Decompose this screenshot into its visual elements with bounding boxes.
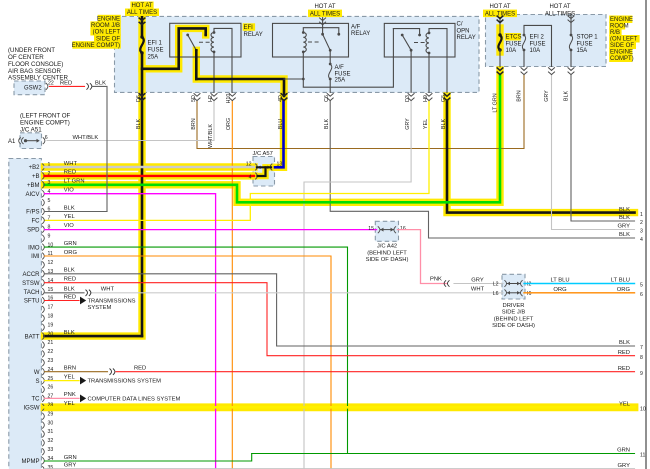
fuse EFI2 10A bbox=[522, 35, 525, 50]
C/OPN relay box bbox=[384, 23, 455, 57]
svg-text:32: 32 bbox=[48, 438, 54, 444]
svg-text:BLK: BLK bbox=[64, 287, 75, 293]
highlight G5 BLK wire to edge row1 bbox=[447, 96, 635, 213]
svg-text:6: 6 bbox=[640, 292, 643, 298]
wire ECM pin34 GRN bbox=[45, 454, 252, 462]
svg-text:J/C A57: J/C A57 bbox=[253, 151, 273, 157]
wire GSW2 BLK to ECM F/PS bbox=[93, 86, 108, 211]
svg-text:BATT: BATT bbox=[25, 334, 40, 340]
svg-text:25A: 25A bbox=[335, 78, 346, 84]
pin27 arrow computer data lines system bbox=[80, 395, 86, 403]
EFI relay coil bottom wire to H2 bbox=[213, 52, 215, 93]
svg-text:15: 15 bbox=[368, 226, 374, 232]
svg-text:A1: A1 bbox=[8, 139, 16, 145]
svg-text:I2: I2 bbox=[527, 282, 531, 288]
svg-text:26: 26 bbox=[48, 385, 54, 391]
R/B bottom pin chevrons bbox=[497, 67, 504, 70]
ECM connector box bbox=[9, 159, 42, 469]
J/C A51 box bbox=[20, 133, 42, 149]
svg-text:J/C A51: J/C A51 bbox=[20, 126, 42, 133]
svg-text:AICV: AICV bbox=[25, 192, 39, 198]
page border right bbox=[645, 0, 647, 469]
svg-text:RED: RED bbox=[134, 366, 146, 372]
svg-text:YEL: YEL bbox=[423, 119, 429, 129]
wire C6 BLK to edge row4 bbox=[330, 101, 634, 238]
A/F fuse wire bbox=[329, 50, 331, 64]
svg-text:15: 15 bbox=[48, 287, 54, 293]
svg-text:15A: 15A bbox=[577, 48, 588, 54]
svg-text:D3: D3 bbox=[405, 95, 411, 102]
wire H9 YEL bbox=[45, 101, 430, 221]
pin15 inline connector BLK-WHT bbox=[86, 290, 91, 296]
svg-text:J/C A42: J/C A42 bbox=[377, 244, 397, 250]
svg-text:WHT: WHT bbox=[471, 287, 485, 293]
A/F relay box bbox=[273, 23, 349, 57]
svg-text:COMPUTER DATA LINES SYSTEM: COMPUTER DATA LINES SYSTEM bbox=[88, 396, 181, 402]
svg-text:BRN: BRN bbox=[517, 90, 523, 101]
EFI relay feed riser bbox=[142, 28, 206, 68]
J/B top pin chevrons bbox=[139, 18, 146, 21]
svg-text:YEL: YEL bbox=[64, 401, 76, 407]
svg-text:WHT/BLK: WHT/BLK bbox=[208, 124, 214, 148]
svg-text:FUSE: FUSE bbox=[335, 71, 351, 77]
wire GRY to driver J/B L2 bbox=[454, 283, 503, 285]
wire ECM pin11 ORG bbox=[45, 256, 332, 469]
wire ECM pin2 RED bbox=[45, 175, 255, 177]
driver J/B pins L2 I2 L6 I6 bbox=[504, 280, 506, 287]
svg-text:3: 3 bbox=[640, 229, 643, 235]
wire ECM pin14 RED to edge row8 bbox=[45, 283, 635, 356]
wire GRY to edge row3 bbox=[552, 75, 635, 230]
svg-text:10: 10 bbox=[640, 407, 646, 413]
highlight ECM pin2 RED to J/C A57 pin4 bbox=[45, 172, 255, 179]
pin16 arrow transmissions system bbox=[80, 297, 86, 305]
svg-text:ALL TIMES: ALL TIMES bbox=[545, 11, 575, 17]
wire ECM pin35 GRY bbox=[45, 468, 635, 469]
EFI relay box U1 bbox=[170, 23, 241, 57]
wire ECM pin10 GRN bbox=[45, 247, 348, 453]
wire D6 BLK highlighted trunk bbox=[141, 14, 144, 38]
svg-text:RELAY: RELAY bbox=[351, 31, 370, 37]
highlight IGSW YEL row to edge row10 bbox=[45, 403, 635, 411]
svg-text:STOP 1: STOP 1 bbox=[577, 35, 599, 41]
svg-text:A/F: A/F bbox=[351, 25, 361, 31]
engine room J/B box bbox=[115, 16, 480, 92]
svg-text:FUSE: FUSE bbox=[530, 41, 546, 47]
wire LT BLU I2 to edge row5 bbox=[524, 283, 635, 285]
EFI relay output riser to rail bbox=[195, 50, 198, 79]
svg-text:HOT AT: HOT AT bbox=[131, 3, 152, 9]
svg-text:3: 3 bbox=[48, 180, 51, 186]
svg-text:A/F: A/F bbox=[335, 65, 345, 71]
svg-text:1: 1 bbox=[640, 212, 643, 218]
fuse ETCS 10A bbox=[498, 35, 501, 50]
svg-text:(BEHIND LEFT: (BEHIND LEFT bbox=[494, 316, 534, 322]
svg-text:TACH: TACH bbox=[24, 290, 40, 296]
A/F relay dashed link bbox=[308, 41, 319, 43]
svg-text:FUSE: FUSE bbox=[148, 48, 164, 54]
svg-text:10A: 10A bbox=[506, 48, 517, 54]
svg-text:BRN: BRN bbox=[64, 366, 76, 372]
svg-text:C/: C/ bbox=[457, 22, 463, 28]
svg-text:ORG: ORG bbox=[553, 287, 567, 293]
svg-text:WHT: WHT bbox=[64, 161, 78, 167]
A/F relay switch bbox=[323, 34, 331, 50]
svg-text:RED: RED bbox=[64, 294, 76, 300]
C/OPN relay switch bbox=[402, 35, 411, 50]
driver side J/B box bbox=[502, 274, 525, 299]
svg-text:FUSE: FUSE bbox=[577, 41, 593, 47]
wire 4D BLU highlighted bbox=[275, 101, 284, 168]
wire ORG I6 to edge row6 bbox=[524, 292, 635, 294]
svg-text:FUSE: FUSE bbox=[506, 41, 522, 47]
svg-text:BLK: BLK bbox=[441, 119, 447, 130]
svg-text:RED: RED bbox=[618, 366, 630, 372]
engine room J/B label bbox=[98, 15, 121, 22]
C/OPN relay blade output to D3 bbox=[410, 50, 412, 92]
svg-text:LT GRN: LT GRN bbox=[493, 93, 499, 112]
svg-text:31: 31 bbox=[48, 429, 54, 435]
svg-text:HOT AT: HOT AT bbox=[314, 4, 335, 10]
wire D3 GRY bbox=[304, 101, 411, 469]
svg-text:ORG: ORG bbox=[64, 250, 78, 256]
svg-text:30: 30 bbox=[48, 420, 54, 426]
GSW2 pin bracket bbox=[46, 83, 48, 90]
svg-text:BLK: BLK bbox=[136, 119, 142, 130]
svg-text:TRANSMISSIONS SYSTEM: TRANSMISSIONS SYSTEM bbox=[88, 379, 162, 385]
svg-text:OPN: OPN bbox=[457, 28, 470, 34]
svg-text:SYSTEM: SYSTEM bbox=[88, 305, 112, 311]
svg-text:RED: RED bbox=[60, 80, 72, 86]
svg-text:TRANSMISSIONS: TRANSMISSIONS bbox=[88, 299, 136, 305]
engine room R/B label bbox=[609, 16, 632, 24]
svg-text:SFTU: SFTU bbox=[24, 299, 40, 305]
svg-text:+BM: +BM bbox=[27, 183, 40, 189]
svg-text:FC: FC bbox=[32, 219, 41, 225]
wire STOP1 BLK to edge row2 bbox=[571, 75, 635, 221]
svg-text:SIDE J/B: SIDE J/B bbox=[502, 310, 526, 316]
wire ECM pin13 BLK to edge row7 bbox=[45, 274, 635, 346]
svg-text:DRIVER: DRIVER bbox=[503, 303, 525, 309]
inline connector RED-BLK bbox=[87, 83, 92, 89]
A/F relay coil bbox=[303, 33, 306, 52]
EFI relay switch bbox=[188, 35, 197, 50]
svg-text:L2: L2 bbox=[493, 282, 499, 288]
svg-text:H2: H2 bbox=[208, 95, 214, 102]
svg-text:ORG: ORG bbox=[617, 287, 631, 293]
svg-text:23: 23 bbox=[48, 358, 54, 364]
ETCS fuse label bbox=[505, 33, 521, 41]
highlight BLU wire A57 pin13 to 4D bbox=[275, 96, 284, 167]
svg-text:BLK: BLK bbox=[324, 119, 330, 130]
svg-text:SIDE OF DASH): SIDE OF DASH) bbox=[492, 323, 535, 329]
svg-text:BLK: BLK bbox=[619, 340, 630, 346]
svg-text:7: 7 bbox=[640, 345, 643, 351]
A1 connector pin bbox=[19, 137, 24, 144]
wire ECM pin24 RED to edge row9 bbox=[116, 371, 635, 373]
fuse EFI1 symbol bbox=[140, 37, 143, 53]
svg-text:BRN: BRN bbox=[191, 118, 197, 129]
svg-text:L6: L6 bbox=[493, 291, 499, 297]
svg-text:COMPT): COMPT) bbox=[610, 56, 634, 62]
fuse A/F 25A bbox=[329, 64, 332, 79]
svg-text:5D: 5D bbox=[191, 95, 197, 102]
svg-text:BLK: BLK bbox=[64, 330, 75, 336]
svg-text:EFI 1: EFI 1 bbox=[148, 41, 163, 47]
J/B bottom pin chevrons bbox=[194, 93, 201, 96]
svg-text:9: 9 bbox=[48, 233, 51, 239]
svg-text:SPD: SPD bbox=[27, 228, 40, 234]
highlight BATT BLK trunk ECM pin20 to D6 bbox=[45, 17, 143, 336]
wire 5D BRN bbox=[197, 75, 524, 149]
svg-text:C6: C6 bbox=[324, 95, 330, 102]
svg-text:7: 7 bbox=[48, 216, 51, 222]
svg-text:BLK: BLK bbox=[95, 80, 106, 86]
wire ECM pin25 YEL to transmissions bbox=[45, 380, 80, 382]
J/C A42 pins and internal path bbox=[378, 226, 380, 233]
engine room R/B box bbox=[486, 15, 607, 67]
svg-text:10A: 10A bbox=[530, 48, 541, 54]
C/OPN relay coil bbox=[426, 33, 429, 53]
svg-text:21: 21 bbox=[48, 340, 54, 346]
svg-text:6: 6 bbox=[45, 135, 48, 141]
svg-text:GRN: GRN bbox=[64, 455, 77, 461]
svg-text:IGSW: IGSW bbox=[24, 406, 40, 412]
svg-text:29: 29 bbox=[48, 411, 54, 417]
wire ECM pin24 BRN bbox=[45, 371, 108, 373]
rail EFI relay to 4D bbox=[196, 79, 284, 96]
svg-text:LT GRN: LT GRN bbox=[64, 179, 85, 185]
svg-text:GRY: GRY bbox=[544, 90, 550, 102]
svg-text:LT BLU: LT BLU bbox=[550, 278, 569, 284]
fuse ETCS 10A feed bbox=[499, 14, 501, 36]
svg-text:W: W bbox=[34, 370, 40, 376]
fuse EFI2 10A rail bbox=[524, 25, 552, 66]
svg-text:H9: H9 bbox=[423, 95, 429, 102]
svg-text:12: 12 bbox=[48, 260, 54, 266]
svg-text:BLK: BLK bbox=[64, 268, 75, 274]
svg-text:ENGINE COMPT): ENGINE COMPT) bbox=[72, 43, 120, 49]
svg-text:STSW: STSW bbox=[22, 281, 40, 287]
svg-text:5: 5 bbox=[640, 283, 643, 289]
svg-text:+B: +B bbox=[32, 174, 40, 180]
svg-text:ALL TIMES: ALL TIMES bbox=[310, 11, 340, 17]
svg-text:GRY: GRY bbox=[618, 463, 631, 469]
svg-text:MPMP: MPMP bbox=[22, 459, 40, 465]
svg-text:BLK: BLK bbox=[619, 207, 630, 213]
fuse STOP1 15A bbox=[569, 35, 572, 50]
svg-text:BLK: BLK bbox=[619, 232, 630, 238]
wire ECM pin28 YEL row core bbox=[45, 406, 635, 409]
wire BATT row core bbox=[45, 335, 143, 338]
svg-text:ACCR: ACCR bbox=[22, 272, 40, 278]
svg-text:RELAY: RELAY bbox=[457, 35, 476, 41]
svg-text:18: 18 bbox=[48, 314, 54, 320]
J/C A42 box bbox=[375, 221, 398, 241]
svg-text:RED: RED bbox=[64, 170, 76, 176]
EFI relay label bbox=[243, 23, 255, 31]
svg-text:GRY: GRY bbox=[405, 118, 411, 130]
svg-text:EFI: EFI bbox=[244, 25, 254, 31]
wire ECM pin1 WHT bbox=[45, 166, 255, 168]
wire GRN to edge row11 bbox=[252, 453, 635, 455]
svg-text:11: 11 bbox=[640, 453, 645, 459]
wire LT GRN ETCS trunk bbox=[45, 75, 501, 203]
svg-text:F/PS: F/PS bbox=[26, 210, 39, 216]
J/C A57 box bbox=[253, 157, 275, 187]
svg-text:(BEHIND LEFT: (BEHIND LEFT bbox=[367, 250, 407, 256]
svg-text:25A: 25A bbox=[148, 55, 159, 61]
A/F relay feed from HOT AT ALL TIMES bbox=[322, 16, 324, 34]
svg-text:22: 22 bbox=[48, 80, 54, 86]
air bag sensor GSW2 box bbox=[14, 81, 45, 95]
wire ECM pin16 RED to transmissions bbox=[45, 300, 80, 302]
pin24 inline connector BRN-RED bbox=[110, 369, 115, 375]
svg-text:WHT/BLK: WHT/BLK bbox=[73, 135, 99, 141]
R/B top pin chevrons bbox=[497, 16, 504, 19]
svg-text:TC: TC bbox=[32, 397, 41, 403]
wire ECM pin8 VIO to J/C A42 bbox=[45, 229, 377, 231]
svg-text:EFI 2: EFI 2 bbox=[530, 35, 545, 41]
svg-text:BLK: BLK bbox=[564, 91, 570, 102]
svg-text:IMO: IMO bbox=[28, 245, 40, 251]
svg-text:+B2: +B2 bbox=[29, 165, 41, 171]
wire G5 BLK highlighted to edge row1 bbox=[447, 101, 635, 213]
C/OPN relay coil top rail to G5 bbox=[429, 29, 447, 93]
svg-text:4: 4 bbox=[640, 237, 643, 243]
svg-text:RED: RED bbox=[64, 277, 76, 283]
svg-text:BLK: BLK bbox=[619, 215, 630, 221]
svg-text:WHT: WHT bbox=[101, 287, 115, 293]
highlight J/C A57 internal path bbox=[256, 167, 273, 176]
wire H10 ORG bbox=[231, 101, 233, 469]
wire PNK J/C A42 to connector bbox=[398, 230, 448, 284]
highlight EFI relay output to 4D bbox=[196, 50, 284, 96]
svg-text:HOT AT: HOT AT bbox=[549, 4, 570, 10]
svg-text:BLU: BLU bbox=[278, 119, 284, 130]
svg-text:22: 22 bbox=[48, 349, 54, 355]
svg-text:YEL: YEL bbox=[619, 402, 631, 408]
svg-text:2: 2 bbox=[640, 220, 643, 226]
svg-text:RELAY: RELAY bbox=[244, 32, 263, 38]
svg-text:YEL: YEL bbox=[64, 214, 76, 220]
svg-text:ORG: ORG bbox=[226, 118, 232, 130]
C/OPN relay dashed link bbox=[414, 42, 425, 44]
svg-text:GRY: GRY bbox=[64, 463, 77, 469]
svg-text:17: 17 bbox=[48, 305, 54, 311]
EFI relay coil bbox=[211, 33, 214, 52]
svg-text:ETCS: ETCS bbox=[506, 35, 522, 41]
svg-text:BLK: BLK bbox=[64, 205, 75, 211]
svg-text:GSW2: GSW2 bbox=[24, 86, 42, 92]
svg-text:19: 19 bbox=[48, 322, 54, 328]
svg-text:S: S bbox=[35, 379, 39, 385]
svg-text:PNK: PNK bbox=[64, 392, 76, 398]
wire GSW2 RED bbox=[50, 85, 85, 87]
svg-text:HOT AT: HOT AT bbox=[489, 4, 510, 10]
svg-text:13: 13 bbox=[277, 161, 283, 167]
wire H2 WHT/BLK bbox=[47, 101, 214, 141]
label HOT AT ALL TIMES above EFI1 bbox=[130, 2, 153, 10]
J/C A57 pins and internal path bbox=[255, 164, 257, 171]
A/F relay coil top rail to right contact bbox=[303, 28, 339, 35]
highlight ECM pin1 WHT to J/C A57 pin12 bbox=[45, 163, 255, 170]
wire ECM pin27 PNK to data lines bbox=[45, 397, 80, 399]
C/OPN relay rail bbox=[393, 29, 419, 35]
svg-text:I6: I6 bbox=[527, 291, 531, 297]
svg-text:YEL: YEL bbox=[64, 374, 76, 380]
svg-text:33: 33 bbox=[48, 447, 54, 453]
svg-text:8: 8 bbox=[640, 355, 643, 361]
A/F relay coil bottom wire bbox=[302, 52, 304, 79]
fuse STOP1 15A feed bbox=[570, 14, 572, 36]
svg-text:RED: RED bbox=[618, 350, 630, 356]
svg-text:VIO: VIO bbox=[64, 188, 74, 194]
svg-text:GRY: GRY bbox=[618, 224, 631, 230]
svg-text:20: 20 bbox=[48, 331, 54, 337]
EFI relay coil top wire to H10 bbox=[214, 28, 232, 92]
svg-text:GRN: GRN bbox=[64, 241, 77, 247]
svg-text:PNK: PNK bbox=[430, 277, 442, 283]
inline connector PNK-GRY bbox=[444, 280, 449, 286]
wire ECM pin4 VIO bbox=[45, 194, 216, 469]
C/OPN relay coil bottom to H9 bbox=[428, 53, 430, 92]
EFI relay dashed link bbox=[199, 41, 212, 43]
svg-text:SIDE OF DASH): SIDE OF DASH) bbox=[366, 257, 409, 263]
svg-text:GRN: GRN bbox=[617, 448, 630, 454]
svg-text:GRY: GRY bbox=[471, 277, 484, 283]
svg-text:9: 9 bbox=[640, 371, 643, 377]
svg-text:LT BLU: LT BLU bbox=[611, 278, 630, 284]
svg-text:IMI: IMI bbox=[31, 254, 40, 260]
svg-text:4: 4 bbox=[249, 174, 252, 180]
ECM pin brackets and numbers bbox=[22, 162, 54, 469]
wire ECM pin15 WHT to driver J/B L6 bbox=[91, 292, 504, 294]
A/F fuse to C6 bbox=[329, 79, 331, 92]
rail extension to A/F coil and C/OPN relay bbox=[284, 78, 303, 80]
svg-text:ALL TIMES: ALL TIMES bbox=[127, 10, 157, 16]
highlight EFI1 fuse branch to EFI relay bbox=[142, 28, 206, 68]
highlight LT GRN trunk ECM pin3 to ETCS fuse bbox=[45, 70, 501, 202]
svg-text:VIO: VIO bbox=[64, 223, 74, 229]
wire ECM pin15 BLK bbox=[45, 292, 85, 294]
svg-text:12: 12 bbox=[246, 161, 252, 167]
svg-text:5: 5 bbox=[48, 198, 51, 204]
highlight ETCS fuse bbox=[496, 28, 503, 52]
wire ECM pin6 BLK from GSW2 bbox=[45, 211, 108, 213]
pin25 arrow transmissions system bbox=[80, 377, 86, 385]
svg-text:ALL TIMES: ALL TIMES bbox=[485, 11, 515, 17]
